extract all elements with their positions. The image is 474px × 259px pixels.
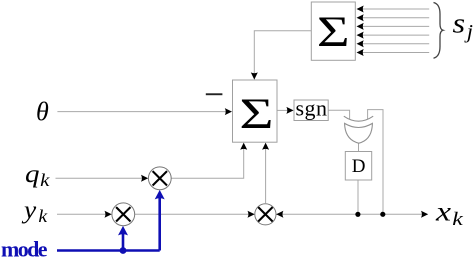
svg-text:mode: mode [1, 237, 48, 259]
svg-text:Σ: Σ [239, 90, 273, 138]
svg-text:θ: θ [36, 97, 49, 126]
svg-text:sgn: sgn [296, 96, 328, 121]
svg-text:D: D [352, 156, 366, 177]
svg-text:Σ: Σ [317, 7, 350, 55]
